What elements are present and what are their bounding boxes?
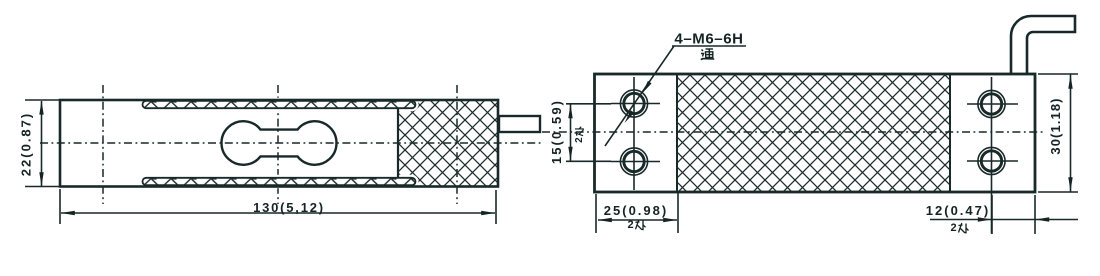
dim 130 line [61, 212, 495, 214]
bottom-left hole crosshair [611, 161, 660, 163]
hatch block right view [677, 74, 950, 192]
label tong (through) glyph [701, 49, 714, 60]
dim 30(1.18) extension bottom [1038, 191, 1078, 193]
dim 25(0.98) extension left [595, 194, 597, 233]
dim 25(0.98) extension right [677, 193, 679, 233]
dim 130 extension right [495, 190, 497, 224]
bottom-left hole M6 [620, 148, 647, 175]
dim 15 2chu glyph (rotated) [574, 127, 585, 143]
body outline right view [595, 74, 1036, 192]
svg-text:22(0.87): 22(0.87) [19, 112, 34, 176]
dim 15(0.59) extension bottom [566, 160, 611, 162]
svg-text:4–M6–6H: 4–M6–6H [674, 31, 743, 48]
potting block left boundary [397, 109, 399, 178]
dim 22(0.87) extension top [25, 99, 59, 101]
dumbbell cutout [222, 121, 337, 165]
dim 30(1.18) line [1070, 75, 1072, 192]
dim 12(0.47) extension left [991, 195, 993, 234]
potting block hatch left view [398, 101, 497, 186]
svg-text:30(1.18): 30(1.18) [1048, 97, 1063, 154]
dim 15(0.59) extension top (hole centerline extended) [566, 103, 611, 105]
vertical centerline x457 [456, 85, 458, 204]
svg-text:130(5,12): 130(5,12) [253, 200, 325, 215]
hatch right boundary [949, 74, 951, 192]
dim 12(0.47) extension right [1034, 195, 1036, 234]
body outline left view [60, 100, 498, 187]
dim 22(0.87) line [41, 101, 43, 186]
right holes vertical centerline + extension [991, 77, 993, 234]
body fill right view [595, 74, 1036, 192]
top-right hole M6 [978, 90, 1005, 117]
top-left hole crosshair [611, 103, 660, 105]
label 4-M6-6H underline [672, 45, 746, 47]
dim 15(0.59) line [570, 104, 572, 161]
svg-text:15(0.59): 15(0.59) [549, 99, 564, 164]
hatch left boundary [676, 74, 678, 192]
left holes vertical centerline [633, 77, 635, 190]
cable stub left view [499, 116, 540, 132]
dim 25 2chu glyph [628, 219, 646, 231]
bottom-right hole crosshair [967, 160, 1018, 162]
dim 25(0.98) line [598, 219, 677, 221]
svg-text:2: 2 [574, 137, 585, 143]
svg-text:2: 2 [628, 219, 634, 231]
cable elbow [1011, 16, 1075, 75]
dim 22(0.87) extension bottom [25, 186, 59, 188]
top gauge strip [143, 101, 416, 108]
vertical centerline x278 [277, 85, 279, 204]
label 4-M6-6H leader line [605, 46, 674, 146]
dim 12(0.47) line [930, 219, 1078, 221]
bottom gauge strip [143, 178, 416, 185]
bottom-right hole M6 [978, 147, 1005, 174]
dim 30(1.18) extension top [1038, 73, 1078, 75]
svg-text:2: 2 [951, 222, 957, 234]
dim 130 extension left [59, 189, 61, 224]
top-right hole crosshair [967, 103, 1018, 105]
svg-text:12(0.47): 12(0.47) [926, 203, 990, 218]
horizontal centerline left view [40, 142, 543, 144]
dim 12 2chu glyph [951, 222, 969, 234]
vertical centerline x103 [102, 85, 104, 204]
top-left hole M6 [620, 90, 647, 117]
svg-text:25(0.98): 25(0.98) [604, 203, 668, 218]
horizontal centerline right view [542, 131, 1046, 133]
